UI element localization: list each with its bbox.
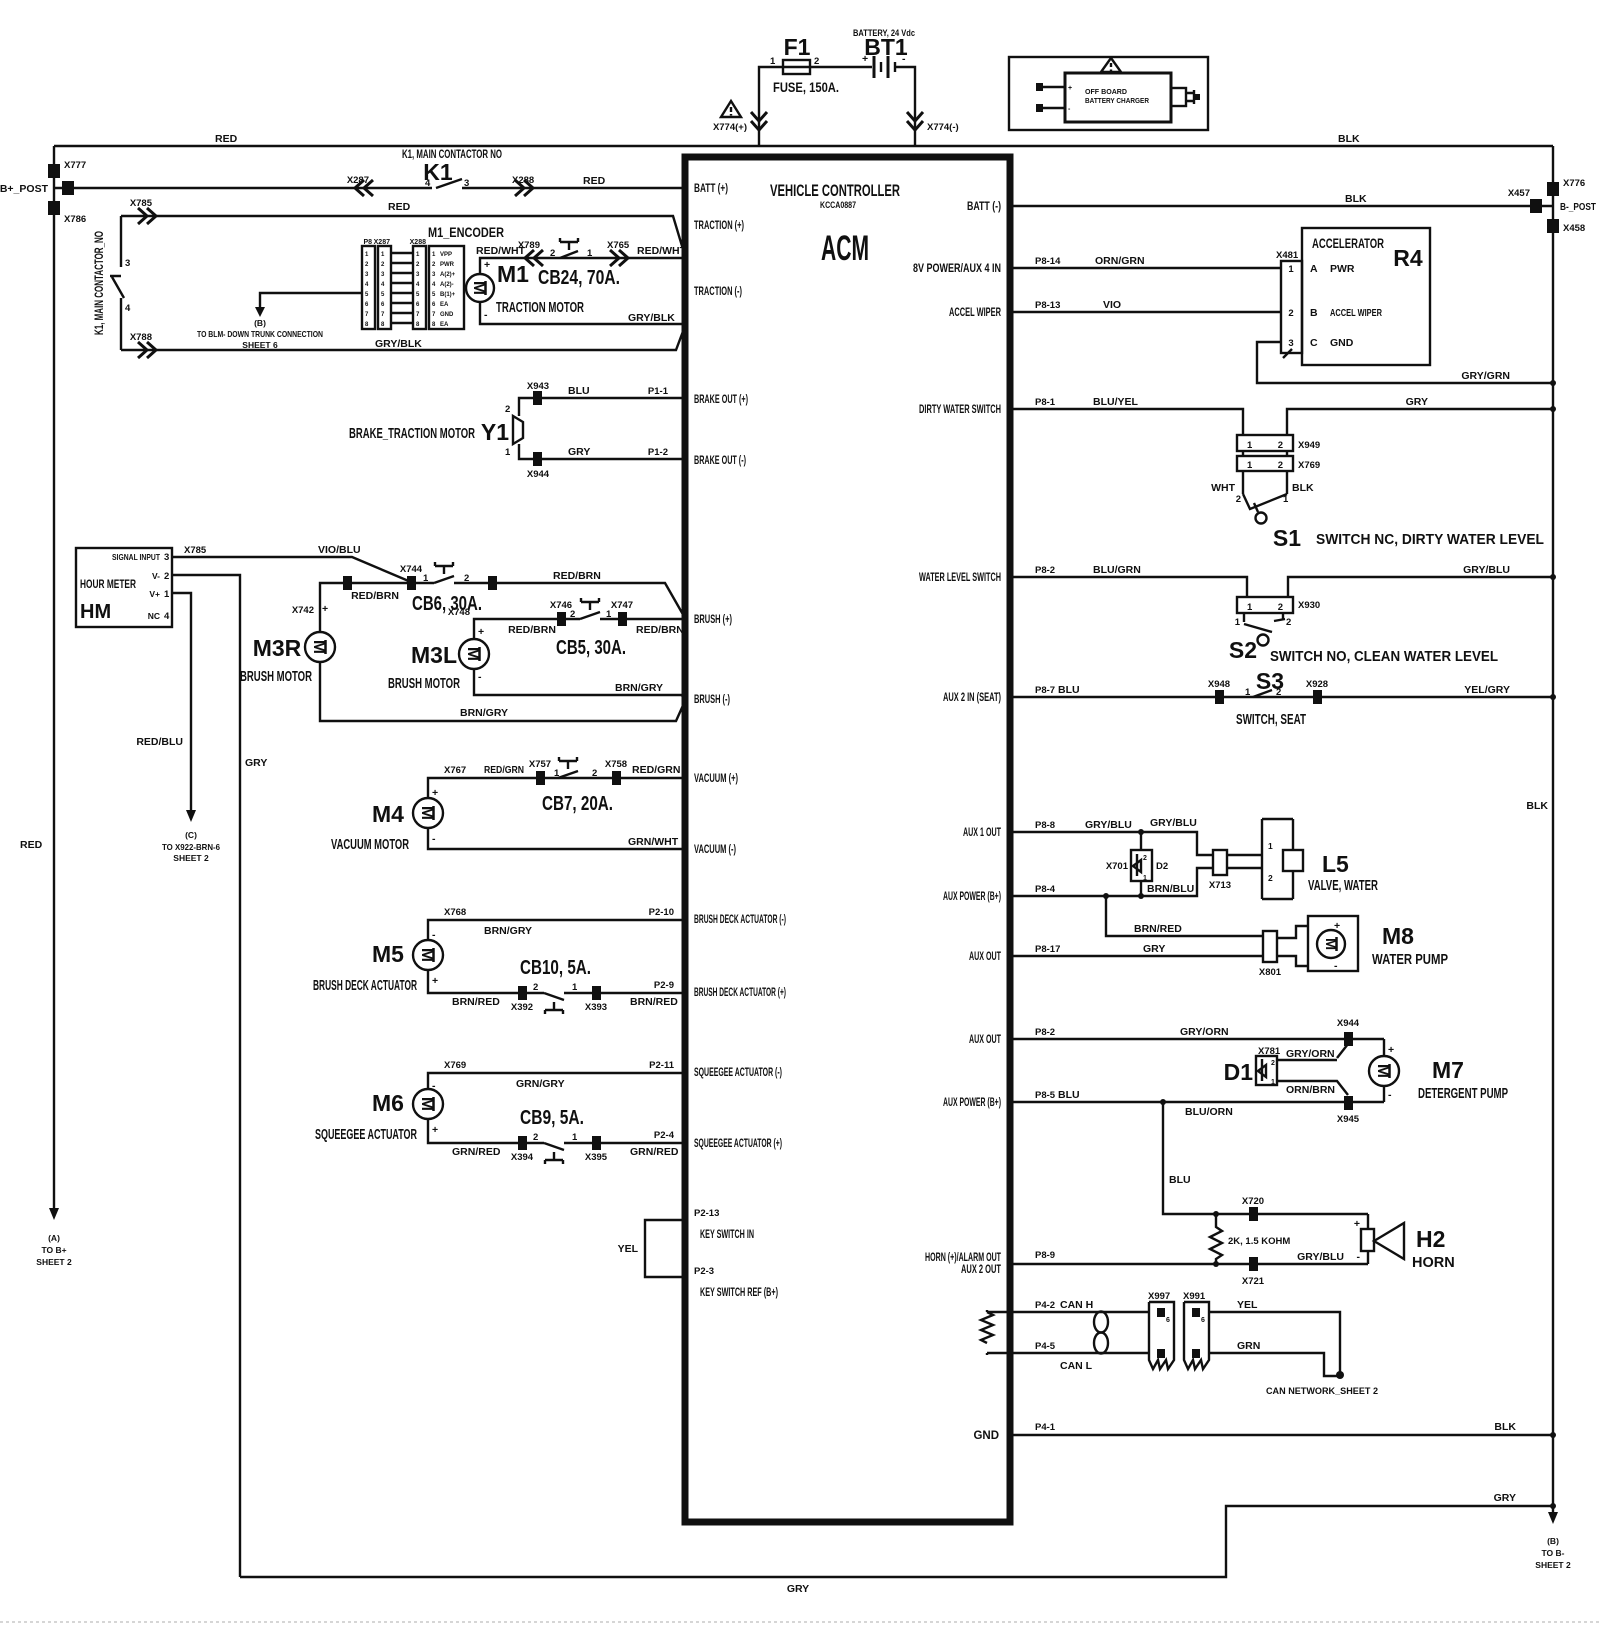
svg-text:X928: X928: [1306, 679, 1328, 690]
svg-text:P4-1: P4-1: [1035, 1422, 1056, 1433]
svg-text:PWR: PWR: [1330, 263, 1355, 275]
encoder connector X286: [378, 246, 391, 329]
svg-text:SQUEEGEE ACTUATOR: SQUEEGEE ACTUATOR: [315, 1127, 417, 1143]
svg-text:P8-13: P8-13: [1035, 300, 1060, 311]
svg-text:WHT: WHT: [1211, 482, 1235, 494]
svg-text:P2-11: P2-11: [649, 1060, 675, 1071]
svg-text:-: -: [432, 833, 436, 845]
svg-text:AUX OUT: AUX OUT: [969, 1034, 1001, 1046]
svg-text:VIO/BLU: VIO/BLU: [318, 544, 361, 556]
svg-text:BRAKE_TRACTION MOTOR: BRAKE_TRACTION MOTOR: [349, 426, 475, 442]
svg-text:BRUSH DECK ACTUATOR (-): BRUSH DECK ACTUATOR (-): [694, 914, 786, 926]
motor M3R: [305, 632, 335, 662]
svg-text:X394: X394: [511, 1152, 534, 1163]
CAN terminating resistor: [981, 1310, 993, 1355]
wire fuse to battery: [810, 66, 872, 68]
svg-text:X786: X786: [64, 214, 86, 225]
svg-text:RED/BLU: RED/BLU: [136, 736, 183, 748]
svg-text:2: 2: [1278, 602, 1283, 613]
svg-text:2: 2: [1288, 308, 1293, 319]
svg-text:VACUUM (-): VACUUM (-): [694, 844, 736, 856]
svg-text:GRY/BLK: GRY/BLK: [375, 338, 422, 350]
svg-text:2: 2: [464, 573, 469, 584]
connector X801: [1263, 931, 1277, 962]
wire AUX OUT GRY/ORN to M7: [1010, 1038, 1384, 1040]
svg-text:GRN/WHT: GRN/WHT: [628, 836, 679, 848]
svg-text:-: -: [432, 929, 436, 941]
svg-text:X288: X288: [512, 175, 534, 186]
svg-text:P8-1: P8-1: [1035, 397, 1056, 408]
svg-text:GRY: GRY: [245, 757, 267, 769]
wire F1 battery branch left: [759, 67, 783, 146]
connector X720: [1249, 1207, 1258, 1221]
svg-text:P4-2: P4-2: [1035, 1300, 1055, 1311]
svg-text:SHEET 2: SHEET 2: [1535, 1560, 1571, 1570]
svg-text:P2-4: P2-4: [654, 1130, 675, 1141]
svg-text:RED/BRN: RED/BRN: [351, 590, 399, 602]
svg-text:+: +: [432, 787, 438, 799]
svg-text:P8-9: P8-9: [1035, 1250, 1055, 1261]
svg-text:RED/BRN: RED/BRN: [553, 570, 601, 582]
svg-text:SIGNAL INPUT: SIGNAL INPUT: [112, 552, 161, 562]
wire HM signal input VIO/BLU: [172, 557, 411, 582]
svg-text:BATT (-): BATT (-): [967, 201, 1001, 213]
svg-text:X776: X776: [1563, 178, 1585, 189]
svg-text:X288: X288: [410, 239, 426, 246]
svg-text:X930: X930: [1298, 600, 1320, 611]
svg-text:(A): (A): [48, 1233, 60, 1243]
resistor 2K: [1210, 1214, 1222, 1264]
svg-text:YEL: YEL: [618, 1243, 639, 1255]
svg-text:H2: H2: [1416, 1226, 1445, 1252]
svg-text:BRN/RED: BRN/RED: [452, 996, 500, 1008]
wire S1 GRY to bus: [1287, 409, 1553, 435]
svg-text:BLK: BLK: [1338, 133, 1360, 145]
svg-text:-: -: [478, 671, 482, 683]
svg-text:P8: P8: [363, 239, 372, 246]
svg-text:-: -: [432, 1080, 436, 1092]
svg-text:1: 1: [164, 589, 170, 600]
svg-text:TO BLM- DOWN TRUNK CONNECTION: TO BLM- DOWN TRUNK CONNECTION: [197, 329, 323, 339]
svg-text:X744: X744: [400, 564, 423, 575]
svg-text:X768: X768: [444, 907, 466, 918]
svg-text:SWITCH NO, CLEAN WATER LEVEL: SWITCH NO, CLEAN WATER LEVEL: [1270, 649, 1498, 665]
svg-text:RED/GRN: RED/GRN: [632, 764, 680, 776]
svg-text:AUX POWER (B+): AUX POWER (B+): [943, 891, 1001, 903]
svg-text:SWITCH, SEAT: SWITCH, SEAT: [1236, 712, 1306, 728]
svg-text:YEL/GRY: YEL/GRY: [1464, 684, 1510, 696]
svg-text:X943: X943: [527, 381, 549, 392]
svg-text:GRY/BLU: GRY/BLU: [1297, 1251, 1344, 1263]
svg-text:2: 2: [533, 982, 538, 993]
svg-text:BLU: BLU: [568, 385, 590, 397]
svg-text:1: 1: [1271, 1079, 1275, 1086]
horn H2: [1367, 1214, 1369, 1264]
wire M3R plus to CB6: [320, 583, 411, 632]
svg-text:X769: X769: [444, 1060, 466, 1071]
svg-text:BLK: BLK: [1526, 800, 1548, 812]
motor M3L: [459, 639, 489, 669]
connector X945: [1344, 1096, 1353, 1110]
svg-text:SWITCH NC, DIRTY WATER LEVEL: SWITCH NC, DIRTY WATER LEVEL: [1316, 532, 1544, 548]
svg-text:A: A: [1310, 263, 1318, 275]
wire left B+ vertical RED: [53, 146, 55, 1208]
svg-text:M5: M5: [372, 941, 404, 967]
svg-text:ORN/GRN: ORN/GRN: [1095, 255, 1145, 267]
svg-text:VACUUM MOTOR: VACUUM MOTOR: [331, 837, 409, 853]
svg-text:VACUUM (+): VACUUM (+): [694, 773, 738, 785]
svg-text:NC: NC: [148, 611, 160, 621]
svg-text:X945: X945: [1337, 1114, 1360, 1125]
svg-text:GRY: GRY: [568, 446, 590, 458]
svg-text:ACM: ACM: [821, 229, 869, 268]
svg-text:RED: RED: [215, 133, 238, 145]
svg-text:2: 2: [533, 1132, 538, 1143]
svg-text:GRY/BLU: GRY/BLU: [1463, 564, 1510, 576]
svg-text:CAN NETWORK_SHEET 2: CAN NETWORK_SHEET 2: [1266, 1386, 1378, 1397]
svg-text:M1: M1: [497, 261, 529, 287]
svg-text:1: 1: [554, 768, 560, 779]
svg-text:B-_POST: B-_POST: [1560, 201, 1596, 213]
circuit breaker CB10: [544, 993, 564, 1014]
circuit breaker CB5: [566, 598, 600, 619]
svg-text:X458: X458: [1563, 223, 1585, 234]
connector X777: [48, 164, 60, 178]
svg-text:HORN: HORN: [1412, 1255, 1455, 1271]
svg-text:P4-5: P4-5: [1035, 1341, 1056, 1352]
svg-text:BLK: BLK: [1292, 482, 1314, 494]
svg-text:X393: X393: [585, 1002, 607, 1013]
wire 8V power ORN/GRN: [1010, 267, 1281, 269]
svg-text:BRUSH (+): BRUSH (+): [694, 614, 732, 626]
svg-text:1: 1: [587, 248, 593, 259]
wire M3R minus bottom loop: [320, 662, 685, 721]
svg-text:BLK: BLK: [1345, 193, 1367, 205]
svg-text:VIO: VIO: [1103, 299, 1121, 311]
connector X458: [1547, 219, 1559, 233]
wire M3L plus to CB5: [474, 619, 557, 639]
svg-text:1: 1: [505, 447, 511, 458]
svg-text:BRN/GRY: BRN/GRY: [484, 925, 532, 937]
svg-text:ORN/BRN: ORN/BRN: [1286, 1084, 1335, 1096]
svg-text:GRN/RED: GRN/RED: [452, 1146, 501, 1158]
encoder connector signal block: [429, 246, 464, 329]
svg-text:X788: X788: [130, 332, 152, 343]
svg-text:BRUSH MOTOR: BRUSH MOTOR: [388, 676, 460, 692]
svg-text:1: 1: [572, 1132, 578, 1143]
svg-text:BRUSH MOTOR: BRUSH MOTOR: [240, 669, 312, 685]
svg-text:BRAKE OUT (-): BRAKE OUT (-): [694, 455, 746, 467]
wire encoder to trunk connection: [260, 293, 362, 310]
svg-text:S1: S1: [1273, 525, 1301, 551]
accelerator R4 box: [1302, 228, 1430, 365]
connector X745: [488, 576, 497, 590]
svg-text:TRACTION (+): TRACTION (+): [694, 220, 744, 232]
svg-text:X801: X801: [1259, 967, 1282, 978]
svg-text:GRY/BLK: GRY/BLK: [628, 312, 675, 324]
svg-text:P2-10: P2-10: [649, 907, 674, 918]
svg-text:EA: EA: [440, 302, 449, 308]
svg-text:P8-7: P8-7: [1035, 685, 1055, 696]
svg-text:HORN (+)/ALARM OUT: HORN (+)/ALARM OUT: [925, 1252, 1001, 1264]
connector X287: [355, 180, 373, 196]
svg-text:GRY/BLU: GRY/BLU: [1150, 817, 1197, 829]
svg-text:BLU/ORN: BLU/ORN: [1185, 1106, 1233, 1118]
svg-text:TRACTION MOTOR: TRACTION MOTOR: [496, 300, 584, 316]
motor M5 brush deck actuator: [413, 940, 443, 970]
svg-text:RED/GRN: RED/GRN: [484, 764, 524, 776]
svg-text:+: +: [322, 603, 328, 615]
svg-text:X949: X949: [1298, 440, 1320, 451]
svg-text:L5: L5: [1322, 851, 1349, 877]
connector X769: [1237, 456, 1293, 471]
svg-text:VPP: VPP: [440, 252, 452, 258]
svg-text:GRY: GRY: [1406, 396, 1428, 408]
svg-text:2: 2: [1286, 617, 1291, 628]
svg-text:1: 1: [1247, 440, 1253, 451]
border bottom scan artifact: [0, 1621, 1600, 1623]
node A TO B+ SHEET 2: [49, 1208, 59, 1220]
svg-text:B(1)+: B(1)+: [440, 292, 456, 298]
svg-text:CB10, 5A.: CB10, 5A.: [520, 957, 591, 979]
svg-text:AUX POWER (B+): AUX POWER (B+): [943, 1097, 1001, 1109]
svg-text:TO B+: TO B+: [41, 1245, 66, 1255]
svg-text:OFF BOARD: OFF BOARD: [1085, 89, 1127, 96]
svg-text:P8-17: P8-17: [1035, 944, 1060, 955]
svg-text:2: 2: [1236, 494, 1241, 505]
svg-text:X457: X457: [1508, 188, 1530, 199]
connector X744: [407, 576, 416, 590]
svg-text:BRN/RED: BRN/RED: [1134, 923, 1182, 935]
wire AUX POWER B+ BLU: [1010, 1101, 1384, 1103]
wire M5 minus BRN/GRY: [428, 920, 685, 940]
svg-text:-: -: [1388, 1089, 1392, 1101]
svg-text:A(2)+: A(2)+: [440, 272, 456, 278]
svg-text:+: +: [1354, 1218, 1360, 1230]
svg-text:VEHICLE CONTROLLER: VEHICLE CONTROLLER: [770, 181, 900, 200]
circuit breaker CB6: [416, 562, 454, 583]
wire AUX POWER B+ BRN/BLU: [1010, 868, 1213, 896]
svg-text:2: 2: [505, 404, 510, 415]
svg-text:3: 3: [464, 178, 469, 189]
svg-text:+: +: [1334, 920, 1340, 932]
svg-text:1: 1: [1247, 460, 1253, 471]
svg-text:+: +: [1068, 85, 1072, 92]
svg-text:A(2)-: A(2)-: [440, 282, 454, 288]
svg-text:CB7, 20A.: CB7, 20A.: [542, 793, 613, 815]
svg-text:2: 2: [592, 768, 597, 779]
svg-text:X701: X701: [1106, 861, 1129, 872]
svg-text:GND: GND: [973, 1430, 999, 1442]
connector X944 detergent: [1344, 1032, 1353, 1046]
circuit breaker CB24: [560, 238, 578, 258]
svg-text:GRN: GRN: [1237, 1340, 1260, 1352]
svg-text:X746: X746: [550, 600, 572, 611]
svg-text:TO X922-BRN-6: TO X922-BRN-6: [162, 842, 220, 852]
svg-text:-: -: [1334, 960, 1338, 972]
svg-text:P8-4: P8-4: [1035, 884, 1056, 895]
wire M3L minus BRN/GRY: [474, 669, 685, 697]
svg-text:HM: HM: [80, 601, 111, 623]
switch S2 NO clean water level: [1244, 613, 1283, 622]
svg-text:X789: X789: [518, 240, 540, 251]
svg-text:(C): (C): [185, 830, 197, 840]
wire Y1 to BRAKE OUT (+) BLU: [519, 398, 685, 416]
svg-text:+: +: [478, 626, 484, 638]
svg-text:1: 1: [572, 982, 578, 993]
svg-text:SQUEEGEE ACTUATOR (-): SQUEEGEE ACTUATOR (-): [694, 1067, 782, 1079]
svg-text:2: 2: [1268, 873, 1273, 883]
svg-text:Y1: Y1: [481, 419, 509, 445]
svg-text:2: 2: [1143, 855, 1147, 862]
wire M1 loop top RED: [121, 216, 685, 256]
svg-text:1: 1: [1247, 602, 1253, 613]
svg-text:SHEET 2: SHEET 2: [36, 1257, 72, 1267]
svg-text:BRUSH DECK ACTUATOR (+): BRUSH DECK ACTUATOR (+): [694, 987, 786, 999]
svg-text:AUX 2 IN (SEAT): AUX 2 IN (SEAT): [943, 692, 1001, 704]
wire M6 plus to CB9 GRN/RED: [428, 1119, 544, 1143]
svg-text:X757: X757: [529, 759, 551, 770]
svg-text:P2-3: P2-3: [694, 1266, 714, 1277]
svg-text:X721: X721: [1242, 1276, 1265, 1287]
connector X786: [48, 201, 60, 215]
wire S2 GRY/BLU to bus: [1288, 577, 1553, 597]
svg-text:TRACTION (-): TRACTION (-): [694, 286, 742, 298]
connector X930: [1237, 597, 1293, 613]
valve L5 water: [1227, 855, 1262, 868]
wire M1 minus GRY/BLK: [480, 302, 685, 324]
svg-text:P2-13: P2-13: [694, 1208, 719, 1219]
svg-text:R4: R4: [1393, 245, 1423, 271]
motor M1: [466, 274, 494, 302]
svg-text:4: 4: [164, 611, 170, 622]
svg-text:GRY/ORN: GRY/ORN: [1180, 1026, 1229, 1038]
svg-text:ACCELERATOR: ACCELERATOR: [1312, 236, 1384, 251]
svg-text:X769: X769: [1298, 460, 1320, 471]
fuse F1: [783, 60, 810, 74]
svg-text:WATER LEVEL SWITCH: WATER LEVEL SWITCH: [919, 572, 1001, 584]
wire GND BLK: [1010, 1434, 1553, 1436]
connector X457: [1530, 199, 1542, 213]
wire B+ to BATT(+): [54, 187, 685, 189]
svg-text:HOUR METER: HOUR METER: [80, 579, 136, 591]
svg-text:8V POWER/AUX 4 IN: 8V POWER/AUX 4 IN: [913, 263, 1001, 275]
svg-text:CB9, 5A.: CB9, 5A.: [520, 1107, 584, 1129]
svg-text:M4: M4: [372, 801, 404, 827]
wire HM V+ RED/BLU: [172, 593, 191, 810]
svg-text:P1-1: P1-1: [648, 386, 669, 397]
svg-text:X944: X944: [1337, 1018, 1360, 1029]
svg-text:SHEET 6: SHEET 6: [242, 340, 278, 350]
wire AUX OUT GRY: [1010, 955, 1263, 957]
svg-text:+: +: [862, 53, 868, 65]
svg-text:X392: X392: [511, 1002, 533, 1013]
svg-text:M7: M7: [1432, 1057, 1464, 1083]
connector X774(+) arrow: [751, 112, 767, 130]
battery charger box: [1009, 57, 1208, 130]
svg-text:BLK: BLK: [1494, 1421, 1516, 1433]
circuit breaker CB9: [544, 1143, 564, 1164]
svg-text:X781: X781: [1258, 1046, 1281, 1057]
connector X789: [525, 250, 543, 266]
svg-text:VALVE, WATER: VALVE, WATER: [1308, 878, 1378, 894]
svg-text:(B): (B): [254, 318, 266, 328]
svg-text:RED: RED: [388, 201, 411, 213]
wire charger leads: [1040, 87, 1065, 108]
svg-text:SQUEEGEE ACTUATOR (+): SQUEEGEE ACTUATOR (+): [694, 1138, 782, 1150]
svg-text:1: 1: [1143, 875, 1147, 882]
diode D2: [1140, 832, 1142, 850]
svg-text:1: 1: [1235, 617, 1241, 628]
svg-text:-: -: [902, 53, 906, 65]
svg-text:RED/BRN: RED/BRN: [636, 624, 684, 636]
svg-text:CAN L: CAN L: [1060, 1360, 1093, 1372]
connector on B+ wire: [62, 181, 74, 195]
svg-text:BRN/GRY: BRN/GRY: [615, 682, 663, 694]
svg-text:CAN H: CAN H: [1060, 1299, 1093, 1311]
svg-text:GND: GND: [440, 312, 454, 318]
svg-text:GRY: GRY: [1143, 943, 1165, 955]
svg-text:6: 6: [1166, 1317, 1170, 1324]
svg-text:X742: X742: [292, 605, 314, 616]
svg-text:M6: M6: [372, 1090, 404, 1116]
circuit breaker CB7: [558, 757, 578, 778]
svg-text:(B): (B): [1547, 1536, 1559, 1546]
svg-text:X767: X767: [444, 765, 466, 776]
connector X721: [1249, 1257, 1258, 1271]
svg-text:X713: X713: [1209, 880, 1231, 891]
svg-text:X765: X765: [607, 240, 630, 251]
detergent pump M7: [1383, 1039, 1385, 1102]
svg-text:DIRTY WATER SWITCH: DIRTY WATER SWITCH: [919, 404, 1001, 416]
svg-text:2K, 1.5 KOHM: 2K, 1.5 KOHM: [1228, 1236, 1290, 1247]
connector X713: [1213, 850, 1227, 875]
wire key switch YEL loop: [645, 1220, 685, 1277]
wire AUX 1 OUT GRY/BLU: [1010, 832, 1213, 855]
encoder connector P8: [362, 246, 375, 329]
svg-text:X747: X747: [611, 600, 633, 611]
svg-text:+: +: [484, 259, 490, 271]
encoder ladder wires: [391, 253, 414, 323]
connector X949: [1237, 435, 1293, 451]
wire BLU down to horn: [1163, 1102, 1368, 1214]
svg-text:2: 2: [570, 609, 575, 620]
svg-text:2: 2: [1271, 1060, 1275, 1067]
connector X747: [618, 612, 627, 626]
wire dirty water switch BLU/YEL: [1010, 409, 1243, 435]
motor M6 squeegee actuator: [413, 1089, 443, 1119]
svg-text:3: 3: [1288, 338, 1293, 349]
svg-text:V+: V+: [149, 589, 160, 599]
svg-text:SHEET 2: SHEET 2: [173, 853, 209, 863]
wire CAN GRN: [1209, 1353, 1340, 1376]
connector X774(-) arrow: [907, 112, 923, 130]
svg-text:X785: X785: [130, 198, 153, 209]
svg-text:K1, MAIN CONTACTOR_NO: K1, MAIN CONTACTOR_NO: [94, 231, 106, 335]
wire M4 minus GRN/WHT: [428, 828, 685, 849]
wire M5 plus to CB10 BRN/RED: [428, 970, 544, 993]
svg-text:1: 1: [1245, 687, 1251, 698]
wire BATT(-) B-_POST BLK: [1010, 205, 1553, 207]
svg-text:X287: X287: [374, 239, 390, 246]
svg-text:BRAKE OUT (+): BRAKE OUT (+): [694, 394, 748, 406]
twisted pair symbol: [1094, 1312, 1108, 1333]
svg-text:2: 2: [550, 248, 555, 259]
motor M4 vacuum: [413, 798, 443, 828]
svg-text:+: +: [1388, 1044, 1394, 1056]
svg-text:CB5, 30A.: CB5, 30A.: [556, 637, 626, 659]
svg-text:+: +: [432, 975, 438, 987]
